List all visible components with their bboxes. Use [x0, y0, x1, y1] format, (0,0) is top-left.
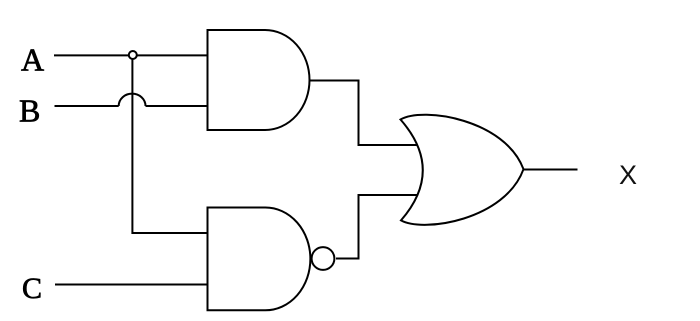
- wire NAND output to OR bottom input: [336, 195, 420, 259]
- wire B input right segment: [146, 105, 208, 107]
- wire OR output: [523, 169, 578, 171]
- svg-text:B: B: [19, 92, 40, 128]
- svg-text:A: A: [21, 42, 44, 78]
- wire B input left segment: [55, 105, 119, 107]
- wire C input: [55, 284, 208, 286]
- wire A input: [54, 54, 208, 56]
- or-gate U3: [401, 115, 524, 225]
- node junction circle on wire A: [129, 51, 137, 59]
- svg-text:X: X: [619, 160, 637, 190]
- nand-gate U2 inversion bubble: [312, 247, 335, 270]
- nand-gate U2 body: [208, 208, 311, 311]
- wire AND output to OR top input: [309, 81, 420, 146]
- svg-text:C: C: [22, 272, 42, 305]
- wire hop of B over vertical branch: [119, 94, 146, 106]
- wire branch from node A down to NAND top input: [132, 60, 208, 234]
- and-gate U1: [208, 30, 310, 130]
